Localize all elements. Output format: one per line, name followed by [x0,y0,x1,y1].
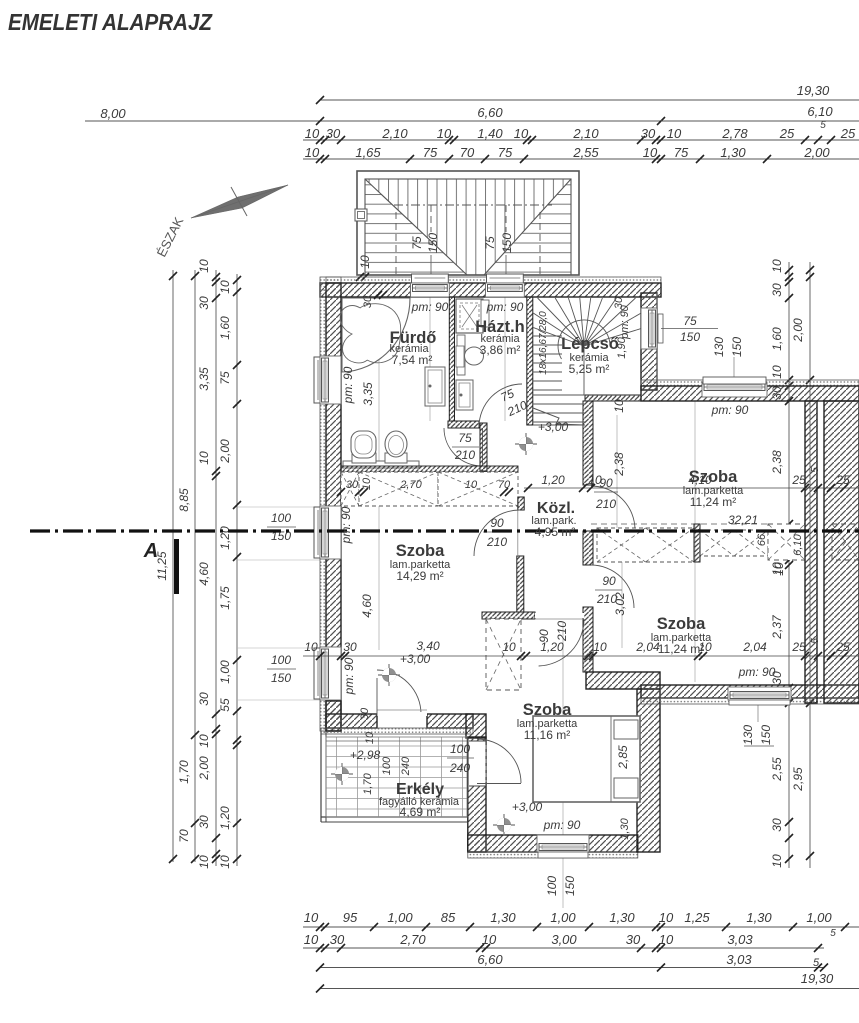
svg-text:1,00: 1,00 [550,910,576,925]
svg-text:30: 30 [362,295,374,308]
svg-text:pm: 90: pm: 90 [711,403,749,417]
svg-text:2,85: 2,85 [616,745,630,770]
svg-text:4,60: 4,60 [360,594,374,618]
svg-text:10: 10 [588,473,602,487]
svg-text:6,60: 6,60 [477,952,503,967]
svg-text:pm: 90: pm: 90 [738,665,776,679]
svg-text:4,95 m²: 4,95 m² [535,525,576,539]
svg-text:100: 100 [545,876,559,896]
svg-text:75: 75 [674,145,689,160]
svg-text:pm: 90: pm: 90 [342,657,356,695]
svg-text:1,30: 1,30 [720,145,746,160]
svg-text:2,38: 2,38 [770,450,784,475]
svg-text:5,25 m²: 5,25 m² [569,362,610,376]
svg-text:75: 75 [683,314,697,328]
svg-text:25: 25 [835,640,850,654]
svg-text:10: 10 [218,855,232,869]
svg-text:1,30: 1,30 [609,910,635,925]
svg-text:10: 10 [305,126,320,141]
svg-text:10: 10 [659,910,674,925]
svg-text:10: 10 [659,932,674,947]
svg-text:10: 10 [218,280,232,294]
svg-text:2,04: 2,04 [742,640,767,654]
svg-text:10: 10 [304,640,318,654]
svg-text:8,85: 8,85 [177,488,191,512]
svg-text:150: 150 [271,671,291,685]
svg-text:Szoba: Szoba [657,615,706,633]
svg-text:32,21: 32,21 [728,513,758,527]
svg-text:90: 90 [602,574,616,588]
svg-text:130: 130 [741,725,755,745]
svg-text:pm: 90: pm: 90 [486,300,524,314]
svg-text:75: 75 [410,236,424,250]
svg-text:210: 210 [595,497,616,511]
svg-text:150: 150 [759,725,773,745]
svg-text:1,00: 1,00 [387,910,413,925]
svg-text:1,30: 1,30 [619,817,631,839]
svg-text:18x16,67/28,0: 18x16,67/28,0 [538,311,549,375]
svg-text:30: 30 [641,126,656,141]
svg-text:3,03: 3,03 [726,952,752,967]
svg-text:10: 10 [667,126,682,141]
svg-text:150: 150 [730,337,744,357]
svg-text:210: 210 [454,448,475,462]
svg-text:10: 10 [770,365,784,379]
svg-text:30: 30 [326,126,341,141]
svg-text:210: 210 [486,535,507,549]
svg-text:4,60: 4,60 [197,562,211,586]
svg-text:+3,00: +3,00 [512,800,543,814]
svg-text:1,70: 1,70 [177,760,191,784]
svg-text:Szoba: Szoba [523,701,572,719]
svg-text:1,00: 1,00 [218,660,232,684]
svg-text:10: 10 [197,734,211,748]
svg-text:75: 75 [498,145,513,160]
svg-text:1,90: 1,90 [616,336,628,358]
svg-text:3,35: 3,35 [361,382,375,406]
svg-text:10: 10 [514,126,529,141]
svg-text:2,00: 2,00 [791,318,805,343]
svg-text:10: 10 [643,145,658,160]
svg-text:1,20: 1,20 [541,473,565,487]
svg-text:+2,98: +2,98 [350,748,381,762]
svg-text:14,29 m²: 14,29 m² [396,569,443,583]
svg-text:5: 5 [810,467,821,473]
svg-text:1,20: 1,20 [218,806,232,830]
svg-text:2,37: 2,37 [770,614,784,640]
svg-text:10: 10 [304,910,319,925]
svg-text:25: 25 [835,473,850,487]
svg-text:10: 10 [612,399,626,413]
svg-text:pm: 90: pm: 90 [339,506,353,544]
svg-text:75: 75 [218,371,232,385]
svg-text:30: 30 [197,296,211,310]
svg-text:100: 100 [450,742,470,756]
svg-text:30: 30 [770,283,784,297]
svg-text:11,16 m²: 11,16 m² [524,728,570,742]
svg-text:10: 10 [770,259,784,273]
svg-text:2,55: 2,55 [572,145,599,160]
svg-text:11,24 m²: 11,24 m² [658,642,704,656]
svg-text:10: 10 [465,479,478,491]
svg-text:Szoba: Szoba [689,468,738,486]
svg-text:5: 5 [820,120,826,131]
svg-text:Lépcső: Lépcső [561,335,619,353]
svg-text:3,86 m²: 3,86 m² [480,343,521,357]
svg-text:2,95: 2,95 [791,767,805,792]
svg-text:+3,00: +3,00 [400,652,431,666]
svg-text:240: 240 [400,756,412,776]
svg-text:8,00: 8,00 [100,106,126,121]
svg-text:1,60: 1,60 [770,327,784,351]
svg-text:150: 150 [426,233,440,253]
svg-text:70: 70 [498,479,511,491]
svg-text:pm: 90: pm: 90 [341,366,355,404]
svg-text:30: 30 [626,932,641,947]
svg-text:30: 30 [330,932,345,947]
svg-text:85: 85 [441,910,456,925]
svg-text:A: A [143,540,158,562]
svg-text:2,10: 2,10 [381,126,408,141]
svg-text:19,30: 19,30 [797,83,830,98]
svg-text:EMELETI ALAPRAJZ: EMELETI ALAPRAJZ [8,9,213,35]
svg-text:7,54 m²: 7,54 m² [392,353,433,367]
svg-text:10: 10 [358,255,372,269]
svg-text:4,69 m²: 4,69 m² [400,805,441,819]
svg-text:2,00: 2,00 [803,145,830,160]
svg-text:10: 10 [593,640,607,654]
svg-text:10: 10 [197,855,211,869]
svg-text:2,38: 2,38 [612,452,626,477]
svg-text:5: 5 [813,957,820,969]
svg-text:19,30: 19,30 [801,971,834,986]
svg-text:25: 25 [791,473,806,487]
svg-text:2,00: 2,00 [197,756,211,781]
svg-text:66: 66 [756,533,768,546]
svg-text:1,60: 1,60 [218,316,232,340]
svg-text:25: 25 [779,126,795,141]
svg-text:3,35: 3,35 [197,367,211,391]
svg-text:2,70: 2,70 [399,479,422,491]
svg-text:30: 30 [359,707,371,720]
svg-text:10: 10 [197,451,211,465]
svg-text:11,24 m²: 11,24 m² [690,495,736,509]
svg-text:30: 30 [197,692,211,706]
svg-text:10: 10 [482,932,497,947]
svg-text:pm: 90: pm: 90 [411,300,449,314]
svg-text:130: 130 [712,337,726,357]
svg-text:+3,00: +3,00 [538,420,569,434]
svg-text:6,60: 6,60 [477,105,503,120]
svg-text:30: 30 [343,640,357,654]
svg-text:10: 10 [305,145,320,160]
svg-text:150: 150 [500,233,514,253]
svg-text:100: 100 [381,756,393,775]
svg-text:100: 100 [271,653,291,667]
svg-text:150: 150 [680,330,700,344]
svg-text:25: 25 [840,126,856,141]
svg-text:1,30: 1,30 [746,910,772,925]
svg-text:75: 75 [458,431,472,445]
svg-text:10: 10 [770,854,784,868]
svg-text:70: 70 [460,145,475,160]
svg-text:1,75: 1,75 [218,586,232,610]
svg-text:10: 10 [772,562,786,576]
svg-text:1,00: 1,00 [806,910,832,925]
svg-text:5: 5 [810,638,821,644]
svg-text:30: 30 [770,818,784,832]
svg-text:3,03: 3,03 [727,932,753,947]
svg-text:30: 30 [346,479,359,491]
svg-text:1,70: 1,70 [362,772,374,794]
svg-text:10: 10 [437,126,452,141]
svg-text:6,10: 6,10 [792,533,804,555]
svg-text:10: 10 [197,259,211,273]
svg-text:2,55: 2,55 [770,757,784,782]
svg-text:70: 70 [177,829,191,843]
svg-text:2,00: 2,00 [218,439,232,464]
svg-text:3,00: 3,00 [551,932,577,947]
svg-text:10: 10 [304,932,319,947]
svg-text:75: 75 [483,236,497,250]
svg-text:90: 90 [490,516,504,530]
svg-text:3,02: 3,02 [613,592,627,616]
svg-text:10: 10 [502,640,516,654]
svg-text:1,65: 1,65 [355,145,381,160]
svg-text:100: 100 [271,511,291,525]
svg-text:Szoba: Szoba [396,542,445,560]
svg-text:240: 240 [449,761,470,775]
svg-text:pm: 90: pm: 90 [543,818,581,832]
svg-text:30: 30 [197,815,211,829]
svg-text:6,10: 6,10 [807,104,833,119]
svg-text:2,10: 2,10 [572,126,599,141]
svg-text:1,20: 1,20 [540,640,564,654]
svg-text:75: 75 [423,145,438,160]
svg-text:1,30: 1,30 [490,910,516,925]
svg-text:30: 30 [613,296,625,309]
svg-text:2,70: 2,70 [399,932,426,947]
svg-text:1,40: 1,40 [477,126,503,141]
svg-text:55: 55 [218,698,232,712]
svg-text:5: 5 [830,928,836,939]
svg-text:10: 10 [364,731,376,744]
svg-text:25: 25 [791,640,806,654]
svg-text:2,78: 2,78 [721,126,748,141]
svg-text:150: 150 [563,876,577,896]
svg-text:95: 95 [343,910,358,925]
svg-text:3,40: 3,40 [416,639,440,653]
svg-text:210: 210 [555,621,569,642]
svg-text:1,25: 1,25 [684,910,710,925]
